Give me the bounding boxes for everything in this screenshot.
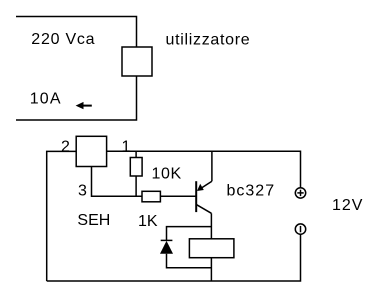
SEH module U1 <box>76 136 106 166</box>
arrow current direction <box>76 102 92 109</box>
svg-text:SEH: SEH <box>77 212 110 229</box>
wire snubber top <box>167 227 212 241</box>
svg-text:12V: 12V <box>332 197 363 214</box>
svg-text:utilizzatore: utilizzatore <box>166 32 251 49</box>
wire collector to bottom rail <box>210 258 212 281</box>
battery terminal negative <box>295 224 305 234</box>
relay coil K1 <box>189 239 234 258</box>
wire pin2 to left rail <box>47 151 76 281</box>
wire top rail <box>107 151 301 187</box>
wire mains bottom <box>16 76 137 120</box>
wire snubber bottom <box>167 254 212 268</box>
svg-text:1K: 1K <box>138 213 158 230</box>
svg-text:1: 1 <box>122 139 131 156</box>
svg-text:10A: 10A <box>30 91 62 108</box>
svg-text:10K: 10K <box>152 166 182 183</box>
svg-text:3: 3 <box>78 183 87 200</box>
svg-text:2: 2 <box>61 139 70 156</box>
wire bottom rail <box>47 234 301 281</box>
resistor R1 10K <box>130 151 142 196</box>
resistor R2 1K <box>142 191 196 202</box>
wire pin3 <box>92 167 143 197</box>
wire mains top <box>16 17 137 48</box>
svg-text:220 Vca: 220 Vca <box>31 31 95 48</box>
diode D1 <box>160 240 173 253</box>
svg-text:bc327: bc327 <box>227 182 276 199</box>
transistor Q1 bc327 <box>196 151 212 239</box>
load box utilizzatore <box>122 47 152 76</box>
battery terminal positive <box>295 188 305 198</box>
